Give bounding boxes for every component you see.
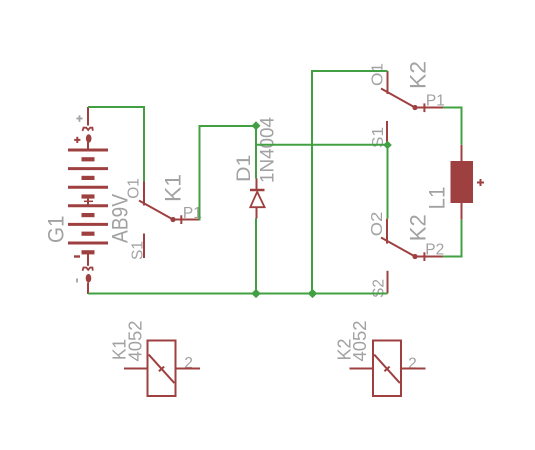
- svg-text:2: 2: [408, 356, 417, 373]
- svg-text:K2: K2: [406, 214, 431, 241]
- svg-text:K2: K2: [406, 61, 431, 89]
- svg-text:O1: O1: [126, 178, 143, 199]
- svg-text:AB9V: AB9V: [108, 194, 133, 243]
- svg-text:S2: S2: [371, 279, 388, 298]
- svg-text:G1: G1: [44, 216, 69, 244]
- svg-text:K1: K1: [161, 174, 186, 202]
- svg-text:4052: 4052: [350, 321, 370, 362]
- svg-text:D1: D1: [234, 155, 255, 183]
- svg-text:1N4004: 1N4004: [258, 117, 279, 183]
- svg-text:L1: L1: [425, 187, 450, 210]
- svg-text:4052: 4052: [126, 321, 146, 362]
- svg-text:O2: O2: [369, 212, 386, 237]
- svg-text:O1: O1: [370, 63, 387, 86]
